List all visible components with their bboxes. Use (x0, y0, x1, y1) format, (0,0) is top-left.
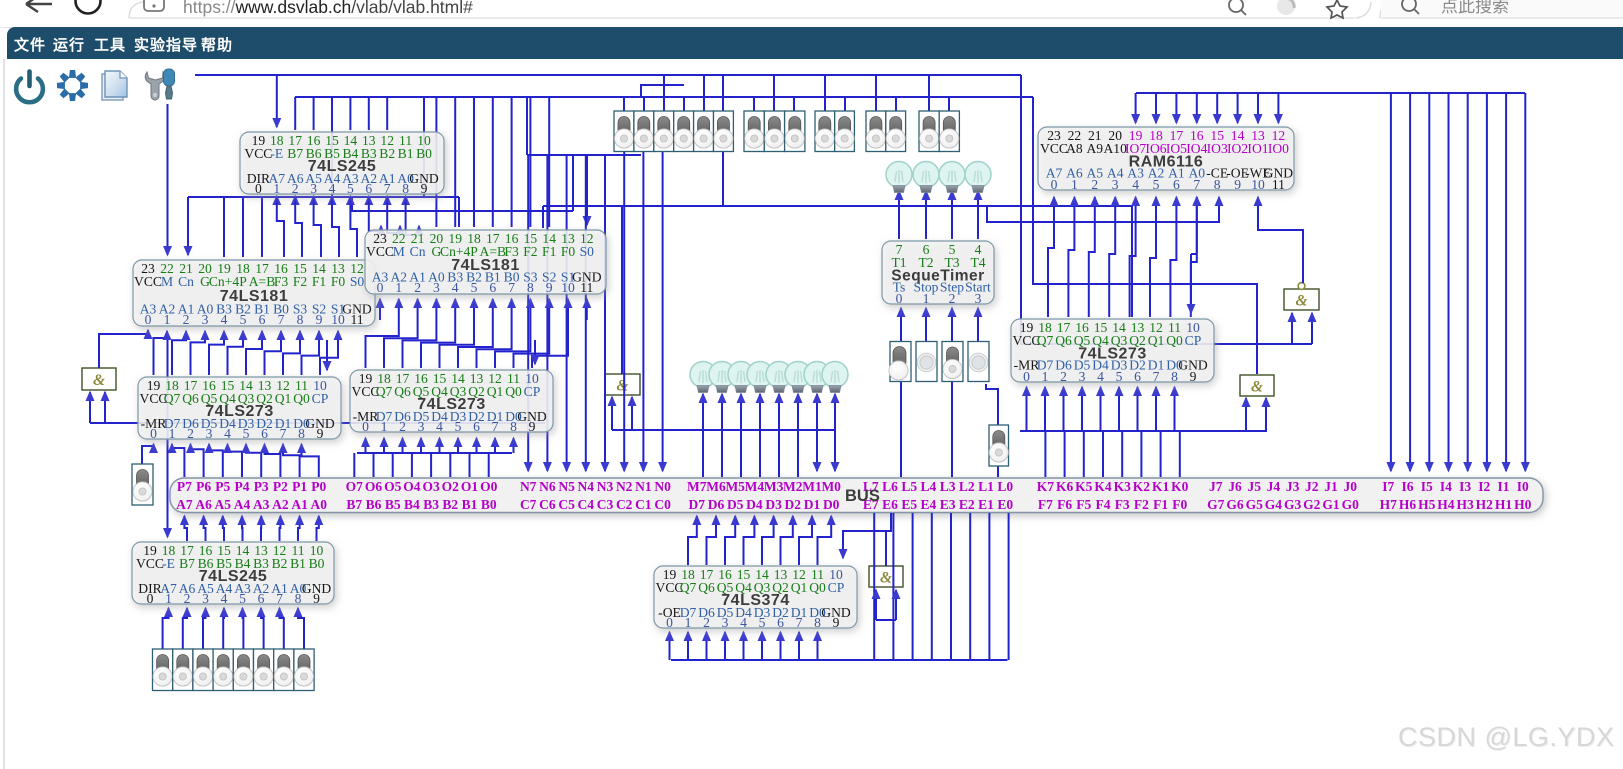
svg-text:H1: H1 (1495, 497, 1513, 512)
wire segment W244 (799, 516, 812, 565)
wire segment W15 (331, 97, 333, 130)
toggle switch SW10-5 (254, 649, 274, 691)
wire segment W108 (302, 444, 319, 477)
svg-text:M1: M1 (802, 479, 822, 494)
svg-text:B1: B1 (462, 497, 478, 512)
svg-text:C5: C5 (558, 497, 575, 512)
svg-text:1: 1 (923, 291, 930, 306)
toggle switch SW2-1 (764, 111, 784, 152)
svg-text:K7: K7 (1037, 479, 1055, 494)
svg-text:8: 8 (1214, 177, 1221, 192)
svg-text:1: 1 (1042, 369, 1049, 384)
wire segment W103 (209, 444, 223, 477)
svg-text:C3: C3 (597, 497, 614, 512)
wire segment W247 (885, 531, 887, 566)
wire segment W242 (762, 516, 774, 565)
svg-text:B7: B7 (287, 146, 303, 161)
wire segment W76 (722, 151, 724, 206)
wire segment W164 (977, 308, 979, 341)
wire trunk T1 (195, 74, 1021, 76)
wire segment W5 (526, 97, 528, 155)
svg-text:Q0: Q0 (809, 580, 826, 595)
wire segment W208 (1100, 387, 1102, 431)
wire segment W243 (781, 516, 793, 565)
svg-text:Q6: Q6 (394, 384, 411, 399)
wire segment W98 (586, 299, 588, 320)
wire segment W89 (403, 299, 437, 368)
svg-text:6: 6 (489, 280, 496, 295)
canvas border (3, 59, 5, 769)
toggle switch SW10-1 (173, 649, 193, 691)
wire segment W169 (1135, 93, 1137, 123)
wire segment W195 (1190, 254, 1192, 313)
svg-text:10: 10 (1251, 177, 1265, 192)
svg-text:O1: O1 (461, 479, 479, 494)
wire segment W254 (761, 632, 763, 660)
wire segment W96 (532, 299, 568, 368)
wire segment W51 (586, 155, 588, 225)
svg-text:9: 9 (546, 280, 553, 295)
svg-text:F2: F2 (1134, 497, 1149, 512)
wire segment W232 (203, 608, 206, 649)
svg-text:H6: H6 (1399, 497, 1417, 512)
svg-text:1: 1 (273, 181, 280, 196)
wire segment W49 (529, 97, 531, 227)
svg-text:D1: D1 (804, 497, 821, 512)
wire segment W235 (261, 608, 264, 649)
wire segment W234 (242, 608, 245, 649)
svg-text:7: 7 (1193, 177, 1200, 192)
svg-text:B2: B2 (272, 556, 288, 571)
svg-text:2: 2 (292, 181, 299, 196)
svg-text:F2: F2 (293, 274, 308, 289)
svg-text:H3: H3 (1456, 497, 1474, 512)
svg-text:K1: K1 (1152, 479, 1170, 494)
wire segment W151 (834, 394, 836, 430)
svg-text:E0: E0 (997, 497, 1013, 512)
wire segment W83 (265, 331, 282, 375)
wire segment W79 (191, 331, 206, 375)
svg-text:F5: F5 (1076, 497, 1091, 512)
svg-text:Q0: Q0 (505, 384, 522, 399)
AND gate G2 (mid) (605, 374, 640, 395)
wire segment W198 (1291, 313, 1293, 344)
wire segment W246 (843, 513, 891, 558)
svg-text:6: 6 (473, 419, 480, 434)
svg-text:A0: A0 (311, 497, 328, 512)
indicator lamp L7 (690, 362, 716, 393)
push button PB2 (968, 342, 989, 382)
chip U3 74LS181 (ALU right) (365, 230, 606, 295)
svg-text:M2: M2 (783, 479, 803, 494)
svg-text:O6: O6 (365, 479, 383, 494)
wire segment W64 (703, 75, 705, 111)
wire segment W25 (313, 196, 315, 203)
wire segment W75 (641, 85, 684, 97)
svg-text:M3: M3 (764, 479, 784, 494)
svg-text:VCC: VCC (366, 244, 394, 259)
wire segment W266 (876, 619, 896, 621)
wire segment W90 (421, 299, 455, 368)
toolbar power button icon (16, 72, 43, 103)
wire segment W196 (1258, 197, 1303, 283)
AND gate G1 (left) (82, 368, 116, 390)
wire segment W262 (950, 513, 952, 660)
svg-text:8: 8 (1171, 369, 1178, 384)
wire segment W165 (900, 382, 902, 477)
wire segment W178 (1409, 93, 1411, 471)
svg-text:C0: C0 (654, 497, 671, 512)
svg-text:D3: D3 (765, 497, 782, 512)
svg-text:O3: O3 (422, 479, 440, 494)
svg-text:I0: I0 (1517, 479, 1529, 494)
wire segment W224 (241, 516, 244, 541)
wire segment W56 (604, 155, 606, 471)
toggle switch SW8 (right of bus) (989, 425, 1009, 466)
wire segment W23 (276, 196, 278, 203)
wire segment W62 (663, 75, 665, 111)
svg-text:F1: F1 (312, 274, 326, 289)
wire segment W99 (326, 340, 328, 370)
svg-text:IO0: IO0 (1268, 141, 1289, 156)
svg-text:I5: I5 (1421, 479, 1433, 494)
svg-text:F1: F1 (1153, 497, 1168, 512)
wire segment W94 (495, 299, 530, 368)
svg-text:M4: M4 (745, 479, 765, 494)
wire segment W130 (104, 392, 106, 423)
svg-text:3: 3 (202, 591, 209, 606)
wire segment W163 (951, 308, 953, 342)
svg-text:8: 8 (402, 181, 409, 196)
wire segment W97 (379, 299, 381, 320)
svg-text:N0: N0 (654, 479, 671, 494)
wire segment W24 (294, 196, 296, 203)
chip U4 SequeTimer (timing generator) (882, 241, 994, 306)
wire segment W176 (1277, 93, 1279, 123)
svg-text:5: 5 (239, 591, 246, 606)
wire segment W233 (222, 608, 225, 649)
toggle switch SW10-0 (153, 649, 173, 691)
svg-text:D0: D0 (823, 497, 840, 512)
svg-text:B0: B0 (309, 556, 325, 571)
svg-text:9: 9 (421, 181, 428, 196)
wire segment W153 (898, 206, 900, 239)
wire segment W230 (163, 608, 169, 649)
indicator lamp L0 (822, 362, 848, 393)
svg-text:K3: K3 (1114, 479, 1132, 494)
svg-text:O7: O7 (346, 479, 364, 494)
svg-text:L3: L3 (940, 479, 956, 494)
toggle switch SW6 (on) (889, 342, 911, 382)
wire segment W166 (951, 382, 953, 477)
wire segment W161 (900, 308, 902, 342)
svg-text:G7: G7 (1207, 497, 1225, 512)
wire segment W268 (895, 590, 897, 620)
svg-text:7: 7 (278, 312, 285, 327)
wire segment W53 (546, 155, 548, 471)
svg-text:E6: E6 (882, 497, 898, 512)
svg-text:F0: F0 (331, 274, 346, 289)
toolbar tools (wrench+screwdriver) icon (145, 69, 174, 100)
svg-text:K2: K2 (1133, 479, 1151, 494)
wire segment W84 (283, 331, 300, 375)
svg-text:&: & (1251, 379, 1263, 396)
wire segment W42 (242, 197, 244, 257)
svg-text:H7: H7 (1380, 497, 1398, 512)
wire segment W256 (798, 632, 800, 660)
svg-text:D6: D6 (708, 497, 725, 512)
wire segment W63 (683, 97, 685, 111)
wire segment W11 (1131, 206, 1133, 317)
wire segment W21 (167, 104, 169, 255)
svg-text:M5: M5 (725, 479, 745, 494)
wire segment W86 (320, 331, 338, 375)
svg-text:P0: P0 (311, 479, 326, 494)
svg-text:VCC: VCC (134, 274, 162, 289)
toggle switch SW10-3 (213, 649, 233, 691)
wire segment W91 (440, 299, 475, 368)
wire segment W61 (643, 97, 645, 111)
svg-text:3: 3 (310, 181, 317, 196)
wire segment W122 (420, 438, 422, 453)
svg-text:B0: B0 (416, 146, 432, 161)
toggle switch SW2-0 (744, 111, 764, 152)
wire segment W120 (383, 438, 385, 453)
wire segment W238 (688, 516, 697, 565)
wire segment W74 (948, 97, 950, 111)
svg-text:11: 11 (1272, 177, 1285, 192)
wire segment W267 (875, 590, 877, 620)
wire segment W121 (402, 438, 404, 453)
indicator lamp L2 (785, 362, 811, 393)
wire segment W182 (1486, 93, 1488, 471)
svg-text:2: 2 (1091, 177, 1098, 192)
svg-text:G4: G4 (1265, 497, 1283, 512)
svg-text:10: 10 (561, 280, 575, 295)
svg-text:F4: F4 (1096, 497, 1111, 512)
svg-text:8: 8 (295, 591, 302, 606)
svg-text:9: 9 (317, 426, 324, 441)
svg-text:O5: O5 (384, 479, 402, 494)
svg-text:3: 3 (1079, 369, 1086, 384)
toggle switch SW1-5 (714, 111, 734, 152)
wire segment W167 (986, 384, 998, 425)
wire segment W249 (669, 632, 671, 660)
svg-text:Q7: Q7 (680, 580, 697, 595)
svg-text:5: 5 (1116, 369, 1123, 384)
svg-text:A=B: A=B (249, 274, 276, 289)
svg-text:9: 9 (1234, 177, 1241, 192)
wire segment W248 (671, 659, 1007, 661)
wire segment W177 (1390, 93, 1392, 471)
wire segment W100 (534, 340, 536, 364)
svg-text:3: 3 (975, 291, 982, 306)
svg-text:2: 2 (949, 291, 956, 306)
wire segment W251 (706, 632, 708, 660)
svg-text:1: 1 (165, 591, 172, 606)
svg-text:N7: N7 (520, 479, 537, 494)
svg-text:I6: I6 (1401, 479, 1413, 494)
svg-text:6: 6 (261, 426, 268, 441)
svg-text:1: 1 (685, 615, 692, 630)
svg-text:P1: P1 (292, 479, 307, 494)
wire segment W58 (642, 151, 644, 471)
wire segment W220 (1179, 431, 1181, 477)
svg-text:8: 8 (814, 615, 821, 630)
wire segment W132 (147, 330, 149, 334)
svg-text:P5: P5 (215, 479, 230, 494)
wire segment W67 (773, 75, 775, 111)
svg-text:C6: C6 (539, 497, 556, 512)
wire segment W156 (925, 191, 927, 206)
wire segment W137 (702, 394, 704, 430)
wire segment W14 (313, 97, 315, 130)
svg-text:B6: B6 (366, 497, 382, 512)
svg-text:9: 9 (1190, 369, 1197, 384)
svg-text:J4: J4 (1267, 479, 1281, 494)
svg-text:B7: B7 (346, 497, 362, 512)
wire segment W171 (1175, 93, 1177, 123)
wire segment W57 (623, 151, 625, 471)
svg-text:D4: D4 (746, 497, 763, 512)
toggle switch SW1-2 (654, 111, 674, 152)
AND gate G3 (right lower) (1240, 375, 1274, 396)
svg-text:5: 5 (347, 181, 354, 196)
wire segment W27 (349, 196, 351, 203)
svg-text:BUS: BUS (845, 487, 880, 505)
wire segment W9 (572, 155, 574, 211)
svg-text:B4: B4 (404, 497, 420, 512)
svg-text:A7: A7 (176, 497, 193, 512)
svg-text:P3: P3 (254, 479, 269, 494)
svg-text:Q1: Q1 (275, 391, 292, 406)
svg-text:B2: B2 (379, 146, 395, 161)
wire segment W36 (332, 197, 339, 257)
wire segment W158 (951, 191, 953, 206)
svg-text:2: 2 (184, 591, 191, 606)
wire segment W183 (1505, 93, 1507, 471)
svg-text:4: 4 (221, 591, 228, 606)
wire segment W54 (566, 155, 568, 471)
svg-text:I1: I1 (1497, 479, 1509, 494)
svg-text:1: 1 (381, 419, 388, 434)
toggle switch SW3-1 (835, 111, 855, 152)
wire segment W118 (488, 453, 490, 477)
wire segment W188 (1109, 197, 1115, 317)
wire segment W95 (514, 299, 550, 368)
wire segment W150 (816, 430, 818, 471)
toggle switch SW4-1 (886, 111, 906, 152)
svg-text:9: 9 (316, 312, 323, 327)
toggle switch SW5-1 (939, 111, 959, 152)
chip U8 74LS273 (register left B) (350, 370, 553, 434)
toggle switch SW10-6 (274, 649, 294, 691)
chip U6 74LS273 (register right) (1011, 319, 1214, 384)
svg-text:-E: -E (270, 146, 283, 161)
wire segment W47 (492, 97, 494, 227)
svg-text:1: 1 (395, 280, 402, 295)
toolbar new-document icon (102, 71, 127, 100)
wire segment W229 (167, 340, 169, 537)
svg-text:Q6: Q6 (698, 580, 715, 595)
svg-text:O0: O0 (480, 479, 498, 494)
toggle switch SW1-1 (634, 111, 654, 152)
svg-text:0: 0 (147, 591, 154, 606)
wire segment W127 (513, 438, 515, 453)
indicator lamp L5 (728, 362, 754, 393)
svg-text:G5: G5 (1246, 497, 1264, 512)
svg-text:Q6: Q6 (1055, 333, 1072, 348)
wire segment W129 (89, 392, 91, 423)
wire segment W265 (1008, 513, 1010, 660)
svg-text:4: 4 (221, 312, 228, 327)
wire segment W181 (1467, 93, 1469, 471)
toolbar run/spinner icon (57, 70, 88, 101)
wire segment W106 (265, 444, 281, 477)
svg-text:H4: H4 (1437, 497, 1455, 512)
svg-text:G6: G6 (1226, 497, 1244, 512)
svg-text:B5: B5 (385, 497, 401, 512)
svg-text:11: 11 (350, 312, 363, 327)
wire segment W50 (548, 97, 550, 227)
wire segment W190 (1150, 197, 1156, 317)
svg-text:I3: I3 (1459, 479, 1471, 494)
svg-text:0: 0 (896, 291, 903, 306)
svg-text:A1: A1 (291, 497, 308, 512)
wire segment W219 (1160, 431, 1162, 477)
wire segment W136 (621, 206, 623, 374)
wire segment W107 (283, 444, 300, 477)
toggle switch SW7 (942, 342, 963, 382)
wire segment W253 (743, 632, 745, 660)
svg-text:M6: M6 (706, 479, 726, 494)
wire segment W131 (99, 334, 148, 368)
wire segment W149 (816, 394, 818, 430)
svg-text:CP: CP (828, 580, 845, 595)
wire segment W31 (187, 197, 189, 255)
wire segment W213 (1044, 431, 1046, 477)
svg-text:Q7: Q7 (164, 391, 181, 406)
svg-text:0: 0 (150, 426, 157, 441)
svg-text:J0: J0 (1343, 479, 1357, 494)
svg-text:2: 2 (1060, 369, 1067, 384)
wire trunk T6 (352, 197, 573, 211)
wire segment W184 (1524, 93, 1526, 471)
wire segment W210 (1137, 387, 1139, 431)
svg-text:P: P (239, 274, 247, 289)
BUS bar (170, 478, 1543, 513)
wire segment W37 (350, 197, 357, 257)
svg-text:C7: C7 (520, 497, 537, 512)
wire segment W66 (753, 97, 755, 111)
svg-text:Q6: Q6 (182, 391, 199, 406)
svg-text:F3: F3 (274, 274, 289, 289)
wire segment W260 (912, 513, 914, 660)
AND gate G5 (by 74LS374) (869, 566, 903, 587)
svg-text:Cn: Cn (178, 274, 194, 289)
svg-text:E1: E1 (978, 497, 994, 512)
toggle switch SW1-4 (694, 111, 714, 152)
svg-text:M0: M0 (821, 479, 841, 494)
wire segment W199 (1311, 313, 1313, 344)
svg-text:5: 5 (759, 615, 766, 630)
svg-text:4: 4 (329, 181, 336, 196)
wire segment W221 (184, 516, 187, 541)
wire segment W193 (1196, 197, 1198, 254)
wire segment W215 (1083, 431, 1085, 477)
wire trunk T5 (543, 205, 1132, 207)
wire segment W82 (246, 331, 262, 375)
